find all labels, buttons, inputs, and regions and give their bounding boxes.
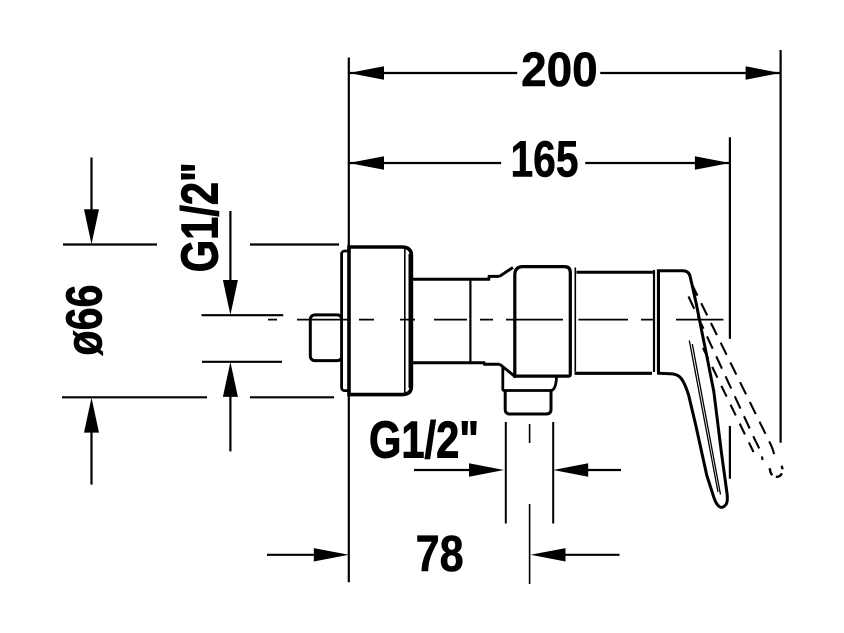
barrel top edge with step	[411, 276, 499, 279]
dimension 78 left arrow	[267, 554, 320, 556]
flange edge highlight line	[404, 249, 406, 394]
inlet stub G1/2	[310, 315, 342, 361]
svg-text:78: 78	[416, 525, 464, 582]
dimension line 200	[349, 72, 781, 74]
svg-text:ø66: ø66	[56, 285, 113, 356]
dashed lever alternate position line 1	[692, 284, 775, 460]
dimension G1/2 bottom right arrow	[582, 469, 621, 471]
svg-text:165: 165	[511, 130, 579, 187]
dashed lever tip hook	[770, 466, 783, 477]
arrow diameter66 down	[90, 158, 92, 216]
main centerline dash-dot	[268, 319, 723, 321]
dimension G1/2 bottom left arrow	[414, 469, 475, 471]
extension line G1/2 left top	[202, 314, 284, 316]
dashed lever alternate position line 3	[703, 348, 754, 452]
extension line left (x=349)	[348, 58, 350, 583]
taper top	[499, 267, 513, 276]
dimension 78 right arrow	[560, 554, 620, 556]
lever highlight line a	[689, 341, 718, 493]
svg-text:G1/2": G1/2"	[369, 412, 479, 470]
extension line for 165 (x=730, broken by dashed lever)	[729, 137, 731, 479]
dashed lever alternate position line 2	[689, 297, 763, 461]
barrel2 top edge	[577, 271, 653, 274]
extension line diameter66 bottom	[62, 396, 334, 398]
barrel bottom edge with step	[411, 363, 500, 364]
extension line diameter66 top	[63, 243, 339, 245]
arrowhead 165 left	[349, 156, 384, 169]
end ring 1	[653, 270, 655, 372]
escutcheon flange	[349, 247, 411, 395]
svg-text:200: 200	[521, 43, 598, 97]
dimension line 165	[349, 162, 730, 164]
arrow G1/2 left down	[229, 211, 231, 286]
arrowhead 165 right	[695, 156, 730, 169]
end ring 2	[657, 270, 659, 372]
valve body block	[515, 267, 571, 377]
extension line right for 200 (x=781)	[779, 50, 781, 443]
arrowhead 200 left	[349, 66, 384, 79]
barrel seam line	[469, 281, 471, 362]
wall plate disc	[342, 251, 350, 391]
barrel2 bottom edge	[575, 372, 653, 375]
svg-text:G1/2": G1/2"	[171, 162, 229, 272]
lever highlight line b	[692, 344, 720, 495]
extension line G1/2 left bottom	[202, 361, 282, 363]
spout extension line right	[552, 422, 554, 524]
handle base and lever	[659, 271, 728, 508]
spout centerline	[529, 424, 531, 584]
outlet collar	[503, 366, 557, 391]
arrowhead 200 right	[746, 66, 781, 79]
arrow G1/2 left up	[229, 391, 231, 451]
arrow diameter66 up	[90, 427, 92, 485]
thin ring right of block	[574, 268, 576, 372]
taper bottom	[500, 364, 516, 377]
outlet spout G1/2	[505, 392, 551, 415]
spout extension line left	[505, 422, 507, 524]
flange right edge emphasis	[409, 254, 412, 388]
